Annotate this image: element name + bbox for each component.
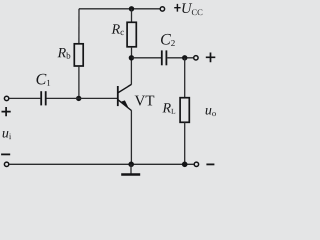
wire top rail	[79, 8, 160, 10]
capacitor C1	[41, 91, 46, 105]
wire Rc bottom lead	[131, 47, 133, 58]
terminal input minus	[4, 162, 8, 166]
terminal input plus	[4, 96, 8, 100]
wire Rc top lead	[131, 9, 133, 22]
label Rb	[58, 48, 71, 59]
resistor Rc	[127, 22, 136, 47]
minus sign input	[1, 153, 10, 155]
wire Rb top lead	[78, 9, 80, 44]
label C1	[36, 74, 50, 86]
label C2	[161, 34, 175, 46]
power terminal +Ucc	[160, 7, 164, 11]
node output top junction	[182, 55, 187, 60]
wire RL top lead	[184, 58, 186, 98]
wire collector vertical	[130, 58, 132, 85]
wire input right segment	[47, 97, 118, 99]
transistor VT	[118, 84, 132, 110]
wire RL bottom lead	[184, 122, 186, 164]
plus sign output	[206, 53, 216, 63]
terminal output minus	[194, 162, 198, 166]
capacitor C2	[162, 50, 167, 65]
node base junction	[76, 96, 81, 101]
resistor RL	[180, 98, 189, 123]
label uo	[206, 108, 216, 116]
minus sign output	[206, 163, 214, 165]
terminal output plus	[194, 56, 198, 60]
wire emitter vertical	[130, 110, 132, 164]
wire input left segment	[9, 97, 40, 99]
wire Rb bottom lead	[78, 66, 80, 98]
node top junction	[129, 6, 134, 11]
label VT	[135, 96, 155, 106]
label +Ucc	[174, 3, 202, 15]
node collector junction	[129, 55, 134, 60]
node emitter junction	[128, 162, 134, 168]
label ui	[3, 131, 12, 139]
wire C2 right segment	[167, 57, 194, 59]
node RL bottom junction	[182, 162, 188, 168]
wire bottom rail	[9, 163, 193, 165]
label Rc	[112, 24, 124, 35]
ground	[121, 164, 140, 174]
resistor Rb	[74, 44, 83, 66]
label RL	[162, 103, 175, 114]
plus sign input	[2, 107, 11, 116]
wire C2 left segment	[132, 57, 162, 59]
